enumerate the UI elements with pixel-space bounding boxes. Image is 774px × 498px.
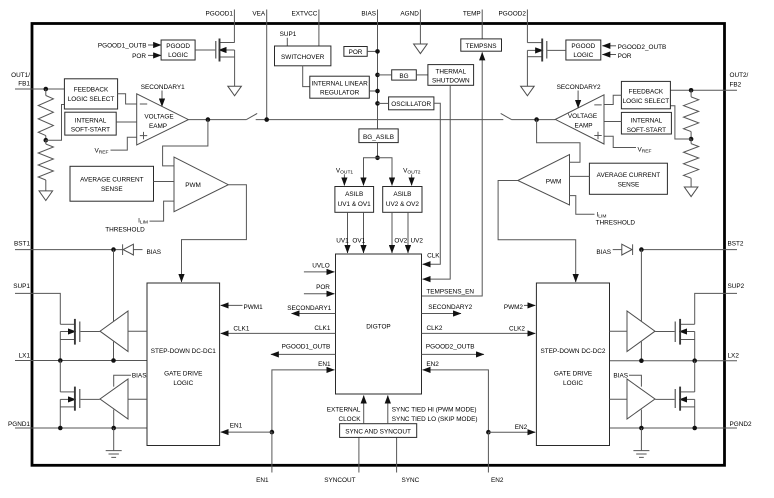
- wire TEMPSENS_EN from DIGTOP up to TEMPSNS: [422, 52, 483, 296]
- wire UVLO into DIGTOP: [304, 271, 335, 273]
- svg-text:INTERNAL: INTERNAL: [75, 117, 107, 124]
- node OUT1/FB1 junction: [44, 87, 49, 92]
- wire U11 to error amp inverting input: [118, 94, 137, 104]
- svg-text:CLK: CLK: [427, 253, 440, 260]
- wire PWM2 into DC-DC2: [524, 304, 535, 306]
- svg-text:EAMP: EAMP: [574, 123, 592, 130]
- wire external clock into DIGTOP: [363, 396, 365, 424]
- node VEA junction: [264, 117, 269, 122]
- resistor R3 (FB2 divider top): [690, 90, 692, 97]
- wire TEMP pin to TEMPSNS: [481, 25, 483, 39]
- svg-text:BIAS: BIAS: [361, 11, 376, 18]
- transistor M1 (high-side NMOS, DC-DC1): [60, 323, 75, 325]
- wire BG_ASILB down: [377, 143, 379, 158]
- block INTERNAL SOFT-START U12: [65, 112, 116, 135]
- svg-text:SYNCOUT: SYNCOUT: [324, 477, 355, 484]
- svg-text:SUP1: SUP1: [13, 283, 30, 290]
- svg-text:UVLO: UVLO: [312, 262, 329, 269]
- svg-text:EXTVCC: EXTVCC: [291, 11, 317, 18]
- pin PGND2 (right): [610, 427, 738, 429]
- wire Q2 source to ground: [526, 50, 528, 86]
- diode D1 (BST1 bootstrap): [122, 244, 124, 255]
- ground AGND symbol: [414, 44, 428, 54]
- svg-text:LOGIC SELECT: LOGIC SELECT: [623, 98, 670, 105]
- resistor R1 (FB1 divider top): [45, 89, 47, 96]
- pin LX1 (left): [15, 360, 147, 362]
- wire PGOOD2_OUTB arrow: [602, 45, 616, 47]
- IC outer border: [32, 24, 725, 466]
- pin PGOOD1 (top): [233, 10, 235, 26]
- svg-text:PGOOD: PGOOD: [166, 43, 190, 50]
- wire BIAS to A2 supply: [114, 375, 131, 386]
- wire right PWM output to DC-DC2 gate drive: [498, 181, 576, 283]
- svg-text:LOGIC: LOGIC: [168, 52, 188, 59]
- wire M2 gate to driver A2: [81, 398, 100, 400]
- svg-text:SECONDARY1: SECONDARY1: [287, 305, 331, 312]
- block OSCILLATOR U9: [389, 97, 434, 110]
- block STEP-DOWN DC-DC1 GATE DRIVE LOGIC U24: [147, 283, 220, 446]
- block INTERNAL SOFT-START U15 (right): [621, 112, 671, 134]
- wire EXTVCC pin down to U4: [318, 25, 320, 46]
- node LX1 junction (A1 return): [111, 358, 116, 363]
- svg-text:VOLTAGE: VOLTAGE: [144, 113, 173, 120]
- svg-text:OSCILLATOR: OSCILLATOR: [391, 101, 431, 108]
- svg-text:SECONDARY2: SECONDARY2: [557, 84, 601, 91]
- svg-text:BST1: BST1: [14, 240, 30, 247]
- wire BIAS to A4 supply: [629, 375, 641, 386]
- svg-text:GATE DRIVE: GATE DRIVE: [554, 371, 592, 378]
- svg-text:SYNC: SYNC: [402, 477, 420, 484]
- svg-text:PGOOD2_OUTB: PGOOD2_OUTB: [426, 343, 475, 350]
- wire OV1 to DIGTOP: [363, 212, 365, 253]
- svg-text:CLOCK: CLOCK: [338, 416, 361, 423]
- svg-text:UV1 & OV1: UV1 & OV1: [338, 201, 371, 208]
- wire PWM1 into DC-DC1: [221, 304, 243, 306]
- svg-text:SECONDARY1: SECONDARY1: [141, 84, 185, 91]
- svg-text:TEMPSNS: TEMPSNS: [466, 43, 497, 50]
- wire PGOOD2 pin to Q2 drain: [526, 25, 528, 43]
- wire VREF to right error amp noninverting input: [604, 136, 636, 147]
- block FEEDBACK LOGIC SELECT U14 (right): [621, 81, 670, 108]
- svg-text:LOGIC: LOGIC: [173, 380, 193, 387]
- svg-text:CLK1: CLK1: [314, 325, 330, 332]
- svg-text:PGOOD2: PGOOD2: [499, 11, 527, 18]
- block AVERAGE CURRENT SENSE U18 (right): [589, 163, 667, 194]
- wire branch to ASILB UV2/OV2: [378, 158, 393, 186]
- svg-text:PGND2: PGND2: [730, 421, 752, 428]
- svg-text:STEP-DOWN DC-DC2: STEP-DOWN DC-DC2: [541, 348, 606, 355]
- block BG U7 (bandgap): [392, 70, 417, 80]
- svg-text:BG_ASILB: BG_ASILB: [363, 134, 394, 141]
- node PGND2 junction (M4 source): [692, 426, 697, 431]
- svg-text:POR: POR: [618, 53, 632, 60]
- svg-text:ASILB: ASILB: [345, 191, 363, 198]
- wire SECONDARY2 arrow into U16: [577, 91, 579, 108]
- block ASILB UV2 & OV2 U22: [383, 187, 422, 213]
- buffer A1 (high-side gate driver, left): [100, 311, 128, 352]
- node PGND2 junction (A4 return): [639, 426, 644, 431]
- comparator U2 PWM (left): [174, 157, 228, 212]
- wire LX1 to M2 drain: [59, 361, 61, 392]
- op-amp U16 VOLTAGE EAMP (right): [555, 95, 604, 144]
- svg-text:POR: POR: [132, 53, 146, 60]
- wire SUP1 to U4: [286, 38, 288, 46]
- wire BG to thermal shutdown: [416, 74, 428, 76]
- svg-text:SYNC TIED HI (PWM MODE): SYNC TIED HI (PWM MODE): [392, 407, 477, 414]
- svg-text:AVERAGE CURRENT: AVERAGE CURRENT: [80, 177, 144, 184]
- wire U14 to right error amp inverting input: [604, 95, 621, 104]
- wire SECONDARY1 arrow into U1: [161, 91, 163, 107]
- transistor Q1 (PGOOD1 open-drain NMOS): [220, 42, 235, 44]
- wire U18 to right PWM comparator: [570, 175, 590, 177]
- svg-text:VOLTAGE: VOLTAGE: [568, 113, 597, 120]
- block POR U6: [344, 47, 367, 57]
- pin BST1 (left): [15, 249, 123, 251]
- svg-text:THRESHOLD: THRESHOLD: [105, 227, 145, 234]
- wire SECONDARY2 out of DIGTOP: [422, 313, 462, 315]
- svg-text:SYNC TIED LO (SKIP MODE): SYNC TIED LO (SKIP MODE): [392, 416, 478, 423]
- svg-text:EN2: EN2: [491, 477, 504, 484]
- node EN2 junction: [486, 430, 491, 435]
- wire U12 to error amp: [116, 121, 137, 123]
- svg-text:PWM: PWM: [185, 182, 201, 189]
- pin PGOOD2 (top): [526, 10, 528, 26]
- ground (below R4): [684, 187, 698, 197]
- node BST1 junction: [111, 247, 116, 252]
- svg-text:FB2: FB2: [730, 82, 742, 89]
- svg-text:POR: POR: [349, 49, 363, 56]
- pin OUT2/FB2 (right): [670, 89, 737, 91]
- block THERMAL SHUTDOWN U8: [428, 65, 474, 86]
- svg-text:BIAS: BIAS: [596, 249, 611, 256]
- node BIAS-oscillator junction: [375, 101, 380, 106]
- svg-text:SWITCHOVER: SWITCHOVER: [281, 54, 325, 61]
- block INTERNAL LINEAR REGULATOR U5: [310, 76, 370, 98]
- svg-text:CLK2: CLK2: [427, 325, 443, 332]
- transistor M4 (low-side NMOS, DC-DC2): [680, 391, 695, 393]
- wire AGND pin down: [419, 25, 421, 44]
- svg-text:SHUTDOWN: SHUTDOWN: [432, 78, 470, 85]
- svg-text:REGULATOR: REGULATOR: [320, 90, 360, 97]
- svg-text:OUT1/: OUT1/: [11, 72, 30, 79]
- node U1 output junction: [206, 117, 211, 122]
- wire EN1 to DC-DC1: [221, 431, 272, 433]
- svg-text:EN1: EN1: [230, 423, 243, 430]
- buffer A4 (low-side gate driver, right): [627, 379, 655, 419]
- pin VEA (top): [266, 10, 268, 26]
- node BST2 junction: [639, 247, 644, 252]
- wire DC-DC1 to A2 input: [128, 398, 147, 400]
- wire POR arrow (right): [602, 54, 616, 56]
- svg-text:ASILB: ASILB: [393, 191, 411, 198]
- wire CLK1 DIGTOP to DC-DC1: [221, 332, 336, 334]
- svg-text:LOGIC SELECT: LOGIC SELECT: [68, 96, 115, 103]
- pin LX2 (right): [610, 360, 738, 362]
- wire EN2 pin to junction: [487, 432, 489, 465]
- svg-text:UV1: UV1: [336, 238, 349, 245]
- wire DC-DC1 to A1 input: [128, 330, 147, 332]
- buffer A3 (high-side gate driver, right): [627, 311, 655, 352]
- svg-text:OV1: OV1: [352, 238, 365, 245]
- wire PWM output to DC-DC1 gate drive: [182, 185, 247, 282]
- node BIAS-regulator junction: [375, 89, 380, 94]
- svg-text:SYNC AND SYNCOUT: SYNC AND SYNCOUT: [345, 429, 411, 436]
- svg-text:PGOOD2_OUTB: PGOOD2_OUTB: [618, 44, 667, 51]
- wire BIAS rail to BG: [378, 74, 392, 76]
- op-amp U1 VOLTAGE EAMP (left): [137, 94, 189, 145]
- wire oscillator CLK to DIGTOP: [423, 103, 441, 264]
- wire VOUT2 into ASILB UV2/OV2: [411, 174, 413, 185]
- wire M3 gate to driver A3: [655, 331, 674, 333]
- wire VEA bus: [256, 119, 504, 121]
- svg-text:EN2: EN2: [426, 361, 439, 368]
- svg-text:EAMP: EAMP: [149, 123, 167, 130]
- svg-text:FB1: FB1: [18, 81, 30, 88]
- wire M4 gate to driver A4: [655, 398, 674, 400]
- svg-text:THERMAL: THERMAL: [436, 68, 467, 75]
- ground (below Q2): [521, 86, 535, 96]
- node BG_ASILB branch junction: [375, 156, 380, 161]
- svg-text:FEEDBACK: FEEDBACK: [629, 89, 664, 96]
- svg-text:AGND: AGND: [400, 11, 419, 18]
- ground (power ground, right): [633, 451, 649, 458]
- block BG_ASILB U20: [359, 129, 398, 143]
- wire U13 to PWM comparator: [154, 181, 175, 183]
- pin AGND (top): [419, 10, 421, 26]
- svg-text:INTERNAL LINEAR: INTERNAL LINEAR: [311, 80, 368, 87]
- wire PGND2 to ground symbol: [640, 428, 642, 450]
- wire FB2 tap to feedback logic select: [670, 106, 691, 139]
- wire SECONDARY1 out of DIGTOP: [292, 313, 336, 315]
- wire BST1 to A1 supply: [113, 250, 115, 322]
- svg-text:BIAS: BIAS: [132, 372, 147, 379]
- wire POR into DIGTOP: [304, 293, 335, 295]
- svg-text:FEEDBACK: FEEDBACK: [74, 86, 109, 93]
- svg-text:BIAS: BIAS: [613, 372, 628, 379]
- wire POR arrow: [148, 54, 161, 56]
- ground (power ground, left): [106, 451, 122, 458]
- svg-text:PGOOD1: PGOOD1: [206, 11, 234, 18]
- svg-text:PWM1: PWM1: [244, 304, 264, 311]
- pin BIAS (top): [377, 10, 379, 26]
- svg-text:SUP2: SUP2: [728, 283, 745, 290]
- svg-text:LX2: LX2: [728, 353, 740, 360]
- transistor M2 (low-side NMOS, DC-DC1): [60, 391, 75, 393]
- wire M1 source to LX1: [59, 332, 61, 361]
- wire PGOOD1 pin to Q1 drain: [233, 25, 235, 43]
- pin PGND1 (left): [15, 427, 147, 429]
- wire DC-DC2 to A4 input: [610, 398, 628, 400]
- svg-text:PGOOD: PGOOD: [571, 43, 595, 50]
- wire VREF to error amp noninverting input: [111, 137, 137, 150]
- svg-text:PGOOD1_OUTB: PGOOD1_OUTB: [98, 43, 147, 50]
- wire A4 return to PGND2: [640, 410, 642, 428]
- block SWITCHOVER U4: [275, 46, 331, 66]
- wire PGOOD2_OUTB out of DIGTOP: [422, 353, 484, 355]
- svg-text:LOGIC: LOGIC: [563, 380, 583, 387]
- svg-text:UV2 & OV2: UV2 & OV2: [386, 201, 419, 208]
- pin SYNCOUT (bottom): [358, 437, 360, 472]
- transistor M3 (high-side NMOS, DC-DC2): [680, 323, 695, 325]
- svg-text:UV2: UV2: [410, 238, 423, 245]
- svg-text:GATE DRIVE: GATE DRIVE: [164, 371, 202, 378]
- block PGOOD LOGIC U19 (right): [566, 40, 601, 60]
- wire BIAS rail to oscillator: [378, 102, 389, 104]
- wire U5 output to BIAS rail: [369, 90, 377, 92]
- wire EN2 to DC-DC2: [488, 431, 535, 433]
- wire U1 output: [188, 119, 246, 121]
- svg-text:TEMP: TEMP: [463, 11, 481, 18]
- wire thermal shutdown to DIGTOP: [423, 85, 451, 279]
- pin SUP1 (left): [15, 293, 60, 324]
- wire U15 to right error amp: [604, 121, 621, 123]
- svg-text:CLK1: CLK1: [233, 326, 249, 333]
- wire PGND1 to ground symbol: [113, 428, 115, 450]
- svg-text:AVERAGE CURRENT: AVERAGE CURRENT: [597, 172, 661, 179]
- wire VEA pin down to bus: [266, 25, 268, 120]
- svg-text:BIAS: BIAS: [147, 249, 162, 256]
- wire U1 output to PWM comparator: [163, 120, 208, 166]
- buffer A2 (low-side gate driver, left): [100, 379, 128, 419]
- block SYNC AND SYNCOUT U26: [340, 424, 417, 438]
- svg-text:SOFT-START: SOFT-START: [627, 127, 666, 134]
- svg-text:LX1: LX1: [19, 353, 31, 360]
- wire VOUT1 into ASILB UV1/OV1: [343, 174, 345, 185]
- block STEP-DOWN DC-DC2 GATE DRIVE LOGIC U25: [536, 283, 609, 446]
- svg-text:POR: POR: [316, 284, 330, 291]
- node FB1 divider tap: [44, 138, 49, 143]
- pin SUP2 (right): [695, 293, 737, 324]
- diode D2 (BST2 bootstrap): [632, 244, 634, 255]
- svg-text:CLK2: CLK2: [509, 326, 525, 333]
- svg-text:THRESHOLD: THRESHOLD: [596, 220, 636, 227]
- node LX2 junction (M3 source): [692, 358, 697, 363]
- node PGND1 junction (A2 return): [111, 426, 116, 431]
- wire branch to ASILB UV1/OV1: [364, 158, 378, 186]
- transistor Q2 (PGOOD2 open-drain NMOS): [527, 42, 542, 44]
- svg-text:PWM: PWM: [546, 179, 562, 186]
- wire DC-DC2 to A3 input: [610, 330, 628, 332]
- svg-text:SECONDARY2: SECONDARY2: [428, 304, 472, 311]
- svg-text:SUP1: SUP1: [280, 31, 297, 38]
- svg-text:PGOOD1_OUTB: PGOOD1_OUTB: [282, 343, 331, 350]
- node FB2 divider tap: [689, 137, 694, 142]
- wire M2 source to PGND1: [59, 399, 61, 428]
- wire ILIM threshold into PWM comparator: [150, 201, 175, 221]
- wire M4 source to PGND2: [694, 399, 696, 428]
- wire U16 output to right PWM comparator: [537, 120, 580, 163]
- wire UV2 to DIGTOP: [407, 212, 409, 253]
- wire UV1 to DIGTOP: [347, 212, 349, 253]
- switch SW2 (VEA disconnect, right): [501, 113, 512, 119]
- block TEMPSNS U10: [461, 39, 502, 51]
- pin OUT1/FB1 (left): [15, 88, 64, 90]
- node EN1 junction: [270, 430, 275, 435]
- wire OV2 to DIGTOP: [391, 212, 393, 253]
- svg-text:EN2: EN2: [515, 424, 528, 431]
- wire M1 gate to driver A1: [81, 331, 100, 333]
- pin EXTVCC (top): [318, 10, 320, 26]
- wire FB1 tap to feedback logic select: [46, 105, 65, 141]
- wire EN2 into DIGTOP: [423, 370, 489, 432]
- wire LX2 to M4 drain: [694, 361, 696, 392]
- svg-text:TEMPSENS_EN: TEMPSENS_EN: [426, 289, 474, 296]
- svg-text:EN1: EN1: [318, 361, 331, 368]
- svg-text:INTERNAL: INTERNAL: [631, 118, 663, 125]
- node OUT2/FB2 junction: [689, 88, 694, 93]
- svg-text:OV2: OV2: [394, 238, 407, 245]
- svg-text:EXTERNAL: EXTERNAL: [327, 407, 361, 414]
- svg-text:OUT2/: OUT2/: [730, 72, 749, 79]
- svg-text:PWM2: PWM2: [504, 304, 524, 311]
- svg-text:BG: BG: [399, 73, 408, 80]
- svg-text:STEP-DOWN DC-DC1: STEP-DOWN DC-DC1: [151, 348, 216, 355]
- wire EN1 pin to junction: [271, 432, 273, 465]
- pin EN2 (bottom): [487, 465, 489, 473]
- node PGND1 junction (M2 source): [58, 426, 63, 431]
- node LX2 junction (A3 return): [639, 358, 644, 363]
- svg-text:DIGTOP: DIGTOP: [366, 324, 390, 331]
- wire BST2 to A3 supply: [640, 250, 642, 322]
- wire U19 output to Q2 gate: [547, 49, 566, 51]
- resistor R2 (FB1 divider bottom): [45, 140, 47, 144]
- wire EN1 into DIGTOP: [272, 370, 335, 432]
- wire sync mode into DIGTOP: [387, 396, 389, 424]
- svg-text:PGND1: PGND1: [8, 421, 30, 428]
- block DIGTOP U23: [336, 254, 422, 394]
- resistor R4 (FB2 divider bottom): [690, 139, 692, 144]
- node BIAS-POR junction: [375, 49, 380, 54]
- svg-text:LOGIC: LOGIC: [573, 52, 593, 59]
- wire A1 return to LX1: [113, 342, 115, 361]
- block FEEDBACK LOGIC SELECT U11: [64, 79, 117, 109]
- block AVERAGE CURRENT SENSE U13: [70, 166, 154, 201]
- svg-text:SENSE: SENSE: [618, 182, 640, 189]
- wire CLK2 DIGTOP to DC-DC2: [422, 332, 536, 334]
- wire A2 return to PGND1: [113, 410, 115, 428]
- wire POR box to BIAS rail: [367, 50, 377, 52]
- comparator U17 PWM (right): [518, 155, 570, 205]
- svg-text:SENSE: SENSE: [101, 186, 123, 193]
- pin BST2 (right): [641, 249, 737, 251]
- node LX1 junction (M1 source): [58, 358, 63, 363]
- block ASILB UV1 & OV1 U21: [335, 187, 374, 213]
- svg-text:EN1: EN1: [256, 477, 269, 484]
- wire PGOOD1_OUTB arrow: [148, 44, 161, 46]
- node BIAS-BG junction: [375, 73, 380, 78]
- ground (below Q1): [228, 86, 242, 96]
- wire BIAS rail (vertical): [377, 25, 379, 129]
- wire VEA bus right segment: [512, 119, 556, 121]
- wire Q1 source to ground: [234, 50, 236, 86]
- svg-text:VEA: VEA: [252, 11, 266, 18]
- node right amp output junction: [534, 117, 539, 122]
- wire PGOOD1_OUTB out of DIGTOP: [271, 353, 336, 355]
- svg-text:SOFT-START: SOFT-START: [71, 127, 110, 134]
- wire U4 to U5: [303, 66, 310, 87]
- wire A3 return to LX2: [640, 342, 642, 361]
- pin SYNC (bottom): [396, 437, 398, 472]
- svg-text:BST2: BST2: [728, 240, 744, 247]
- switch SW1 (VEA disconnect, left): [246, 113, 257, 119]
- ground (below R2): [39, 191, 53, 201]
- wire M3 source to LX2: [694, 332, 696, 361]
- wire right ILIM threshold into PWM comparator: [570, 196, 595, 215]
- pin TEMP (top): [481, 10, 483, 26]
- pin EN1 (bottom): [271, 465, 273, 473]
- wire U3 output to Q1 gate: [195, 49, 215, 51]
- block PGOOD LOGIC U3: [161, 40, 195, 60]
